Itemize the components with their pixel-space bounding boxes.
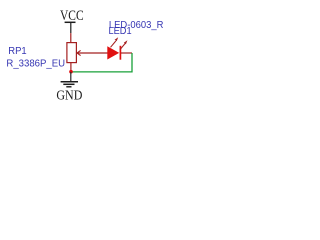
LED emission arrow 1 [111, 37, 119, 47]
wire LED cathode to ground (green) [71, 53, 132, 72]
svg-text:GND: GND [56, 88, 82, 103]
resistor RP1 bottom pin [70, 63, 72, 72]
ground bar 2 [63, 83, 74, 85]
svg-text:LED1: LED1 [109, 26, 132, 37]
resistor RP1 top pin [70, 33, 72, 43]
wire wiper to LED anode [77, 52, 108, 54]
svg-text:VCC: VCC [60, 8, 84, 24]
LED cathode pin [121, 52, 132, 54]
LED LED1 triangle [107, 46, 119, 59]
svg-text:RP1: RP1 [8, 46, 27, 57]
VCC bar [65, 21, 76, 23]
resistor RP1 body [67, 43, 77, 63]
LED emission arrow 2 [120, 40, 127, 49]
ground stub [70, 72, 72, 82]
svg-text:R_3386P_EU: R_3386P_EU [6, 59, 65, 70]
ground bar 1 [61, 81, 78, 83]
LED cathode bar [119, 46, 121, 60]
junction dot [69, 70, 73, 74]
wiper arrow of RP1 [77, 50, 81, 55]
VCC pin stub [70, 22, 72, 33]
ground bar 3 [66, 86, 71, 88]
